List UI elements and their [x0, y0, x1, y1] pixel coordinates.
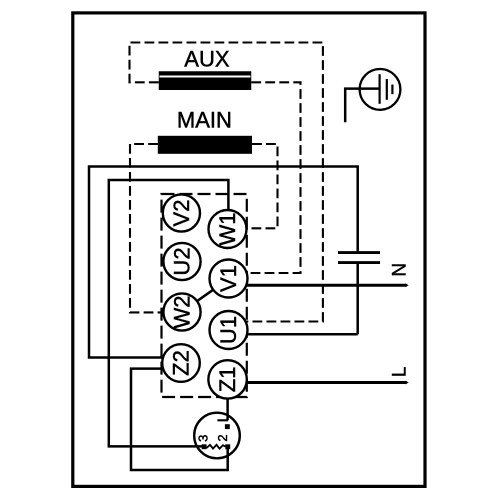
svg-text:2: 2	[215, 434, 230, 441]
svg-text:W2: W2	[170, 296, 195, 329]
svg-text:U2: U2	[170, 247, 195, 275]
svg-text:V2: V2	[169, 200, 194, 227]
svg-text:Z2: Z2	[169, 350, 194, 376]
svg-text:N: N	[390, 263, 411, 277]
svg-text:W1: W1	[215, 213, 240, 246]
svg-text:U1: U1	[216, 316, 241, 344]
svg-text:AUX: AUX	[184, 47, 230, 72]
svg-text:MAIN: MAIN	[177, 108, 232, 133]
svg-text:3: 3	[195, 435, 210, 442]
svg-text:Z1: Z1	[215, 367, 240, 393]
svg-text:V1: V1	[216, 265, 241, 292]
svg-text:L: L	[390, 367, 411, 378]
